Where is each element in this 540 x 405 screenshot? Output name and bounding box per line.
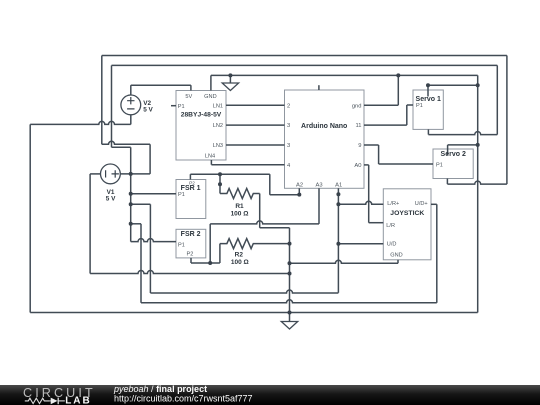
node UD junction: [336, 242, 340, 246]
svg-text:R2: R2: [235, 251, 244, 258]
wire A1 column x338.4: [337, 188, 339, 292]
wire servo1 top feed: [428, 84, 478, 86]
wire right column x506.9: [506, 56, 508, 185]
wire pin 9 drop: [378, 145, 380, 164]
logo resistor diode glyph: [25, 398, 50, 403]
svg-text:3: 3: [287, 143, 290, 149]
wire pin 9 lead: [364, 144, 379, 146]
svg-text:P1: P1: [436, 163, 443, 169]
wire LN2 to pin 3: [226, 124, 285, 126]
node servo1 pin junction: [426, 83, 430, 87]
resistor R1: [220, 189, 260, 199]
wire V2 plus to 5V pin: [131, 84, 191, 86]
wire to joystick LRplus with hop over x368.7: [338, 201, 383, 204]
node branch y224: [129, 222, 133, 226]
node R1 top junction: [218, 172, 222, 176]
wire sense drop x269.8: [269, 174, 271, 195]
wire rail y302.8 with hop over x289.5: [141, 300, 437, 303]
svg-text:U/D+: U/D+: [415, 201, 428, 207]
wire to servo2 P1: [379, 163, 433, 165]
wire LN1 to pin 2: [226, 104, 285, 106]
wire servo2 bottom feed with hop over x477.7: [447, 181, 507, 184]
Arduino Nano U1 body: [285, 90, 365, 188]
wire riser x150 up: [149, 144, 151, 174]
wire plus column x130.7: [130, 174, 132, 242]
node LRplus junction: [336, 202, 340, 206]
svg-text:P1: P1: [178, 242, 185, 248]
wire servo2 top pin: [447, 145, 449, 155]
wire right column x497.3: [496, 65, 498, 134]
wire column x141: [140, 224, 142, 303]
svg-text:P2: P2: [189, 181, 195, 187]
wire sense to A2: [270, 194, 300, 196]
wire to servo1 P1: [407, 104, 413, 106]
wire column x111.5: [111, 65, 113, 147]
wire R2 left riser: [219, 244, 221, 263]
node A1 junction: [336, 192, 340, 196]
wire LN4 to pin 4: [211, 164, 284, 166]
node R1 riser mid: [218, 182, 222, 186]
wire Arduino gnd riser: [397, 75, 399, 105]
wire R1 right run y227.8: [260, 227, 290, 229]
svg-text:11: 11: [355, 123, 361, 129]
wire branch y223.8: [131, 223, 141, 225]
Servo 1 body: [413, 90, 443, 129]
wire jog y147.3: [112, 146, 131, 148]
svg-text:P1: P1: [178, 104, 185, 110]
svg-text:LAB: LAB: [65, 396, 92, 405]
wire column x150.4: [149, 204, 151, 293]
node top ground junction: [228, 73, 232, 77]
wire A0 drop x368.7: [368, 165, 370, 223]
ground G1: [222, 75, 238, 90]
FSR 1 body: [176, 180, 206, 219]
wire Arduino gnd lead: [364, 104, 398, 106]
svg-text:U/D: U/D: [387, 241, 397, 247]
svg-text:GND: GND: [204, 94, 216, 100]
wire servo1 bottom feed with hop over x477.7: [428, 132, 497, 135]
node A3 sense junction: [208, 261, 212, 265]
wire to joystick UD: [338, 243, 383, 245]
wire 28BYJ P1 stub: [171, 105, 176, 107]
wire FSR1 P2 stub: [189, 174, 191, 179]
node R2 right junction: [288, 242, 292, 246]
wire top rail y55: [102, 55, 507, 57]
svg-text:LN3: LN3: [213, 143, 223, 149]
wire servo2 top feed: [448, 144, 478, 146]
wire pin 11 lead: [364, 124, 407, 126]
wire LN4 stub: [210, 160, 212, 165]
wire joystick UDplus stub: [431, 203, 437, 205]
wire FSR2 P1 lead with hops: [131, 239, 176, 242]
svg-text:28BYJ-48-5V: 28BYJ-48-5V: [181, 111, 222, 118]
wire bottom rail y312.5: [30, 312, 478, 314]
svg-text:5 V: 5 V: [106, 195, 116, 202]
wire V2 minus to left with hops: [30, 121, 131, 124]
svg-text:P1: P1: [416, 103, 423, 109]
svg-text:A1: A1: [335, 182, 342, 188]
svg-text:GND: GND: [390, 252, 402, 258]
node V1 plus junction: [129, 172, 133, 176]
wire joystick GND stub: [397, 260, 399, 264]
wire A2 stub: [298, 188, 300, 194]
wire A3 drop to sense: [209, 224, 211, 263]
wire joystick UDplus column: [436, 204, 438, 302]
svg-text:L/R: L/R: [386, 223, 395, 229]
wire A0 lead: [364, 164, 369, 166]
Servo 2 body: [433, 149, 473, 179]
wire FSR2 sense run: [191, 262, 220, 264]
wire R1 right drop: [259, 194, 261, 228]
svg-text:FSR 2: FSR 2: [181, 231, 201, 238]
voltage source V2: [121, 95, 141, 115]
svg-text:LN2: LN2: [213, 123, 223, 129]
wire left column x101.8: [101, 56, 103, 145]
svg-text:P2: P2: [187, 251, 194, 257]
wire gnd column x289.5: [289, 228, 291, 313]
wire R1 left riser: [219, 174, 221, 193]
wire V2 minus stub: [130, 115, 132, 125]
wire V1 plus to corner node: [120, 173, 150, 175]
wire V2 plus stub: [130, 85, 132, 95]
wire FSR1 P1 lead: [131, 193, 176, 195]
node V1 minus junction: [288, 272, 292, 276]
resistor R2: [220, 239, 290, 249]
wire V1 minus lead: [90, 173, 100, 175]
wire pin 11 riser: [406, 105, 408, 125]
svg-text:Arduino Nano: Arduino Nano: [301, 123, 347, 130]
wire to joystick LR: [369, 222, 384, 224]
node branch y204: [129, 202, 133, 206]
svg-text:A2: A2: [296, 182, 303, 188]
wire gnd rail y75.4: [211, 74, 478, 76]
svg-text:LN4: LN4: [205, 154, 215, 160]
node FSR1 P1 branch: [129, 192, 133, 196]
voltage source V1: [101, 164, 121, 184]
wire joystick GND run with hop over x338.4: [290, 260, 399, 263]
label V1: [106, 189, 116, 202]
wire servo2 bottom stub: [446, 179, 448, 185]
node A2 junction: [297, 193, 301, 197]
wire y144 with hop over x111.5: [102, 141, 150, 144]
svg-text:Servo 2: Servo 2: [441, 151, 466, 158]
node bottom rail junction: [288, 311, 292, 315]
FSR 2 body: [176, 229, 206, 258]
stepper motor 28BYJ-48-5V body: [176, 91, 226, 161]
wire FSR1 P2 run y174.2: [190, 173, 269, 175]
svg-text:A3: A3: [316, 182, 323, 188]
node gnd col y145 junction: [476, 143, 480, 147]
svg-text:JOYSTICK: JOYSTICK: [390, 210, 424, 217]
svg-text:L/R+: L/R+: [387, 201, 399, 207]
ground G2: [281, 313, 297, 330]
wire 5V pin riser: [190, 85, 192, 90]
svg-text:P1: P1: [178, 192, 185, 198]
JOYSTICK body: [383, 189, 431, 260]
label R1: [231, 203, 249, 218]
svg-text:5V: 5V: [185, 94, 192, 100]
svg-text:A0: A0: [354, 163, 361, 169]
svg-text:9: 9: [358, 143, 361, 149]
wire top rail y65: [112, 64, 498, 66]
svg-text:2: 2: [287, 103, 290, 109]
node arduino gnd junction: [396, 73, 400, 77]
svg-text:LN1: LN1: [213, 103, 223, 109]
label R2: [231, 251, 249, 266]
label V2: [143, 100, 153, 114]
wire right gnd column x477.7: [477, 75, 479, 312]
wire outer left column: [29, 124, 31, 312]
wire servo1 bottom stub: [427, 129, 429, 134]
wire 28BYJ GND riser: [210, 75, 212, 90]
node gnd wire junction: [288, 261, 292, 265]
wire branch y204: [131, 203, 151, 205]
wire A3 drop: [318, 188, 320, 224]
wire V1 minus column x90.1: [89, 174, 91, 274]
svg-text:3: 3: [287, 123, 290, 129]
svg-text:100 Ω: 100 Ω: [231, 211, 249, 218]
svg-text:100 Ω: 100 Ω: [231, 259, 249, 266]
wire rail y293 with hop over x289.5: [150, 290, 338, 293]
node gnd col y85 junction: [476, 83, 480, 87]
svg-text:R1: R1: [235, 203, 244, 210]
svg-text:5 V: 5 V: [143, 106, 153, 113]
wire FSR2 P2 stub: [190, 258, 192, 263]
wire jog down to node: [130, 147, 132, 174]
svg-text:http://circuitlab.com/c7rwsnt5: http://circuitlab.com/c7rwsnt5af777: [114, 394, 253, 404]
wire servo1 top pin: [427, 85, 429, 96]
wire A3 run y223.9 with hop over x259.7: [210, 221, 319, 224]
wire Arduino top stub: [318, 85, 320, 90]
wire LN3 to pin 3: [226, 144, 285, 146]
svg-text:gnd: gnd: [352, 103, 362, 109]
wire V1 minus run y273.5 with hops: [90, 271, 289, 274]
